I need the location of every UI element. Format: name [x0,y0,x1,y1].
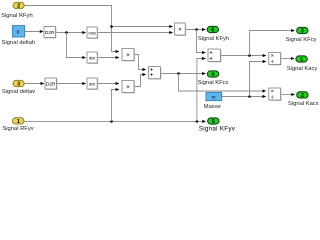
inport deltav (yellow oval 3) [13,80,24,87]
product block mid [122,49,135,62]
svg-text:Signal deltah: Signal deltah [2,40,36,46]
product block low [122,81,135,94]
outport KFyh (green oval 6) [207,26,218,33]
outport KFcy (green oval 3) [297,27,308,34]
wire sum1 out to KFcx port [160,73,205,75]
wire branch up to low product input2 [112,90,119,122]
svg-text:sin: sin [89,81,95,87]
svg-text:D2R: D2R [45,30,55,36]
wire RFyv bus [24,120,205,122]
svg-text:Signal Kacx: Signal Kacx [288,101,319,107]
junction RFyv to sum2 [196,120,199,123]
inport RFyv (yellow oval 1) [12,118,24,125]
wire divide1 out to Kacy port [281,58,295,60]
wire divide2 out to Kacx port [281,94,295,96]
trig block cos [87,27,98,39]
source block Masse (blue) [206,92,222,100]
inport RFyh (yellow oval 2) [13,2,24,9]
svg-text:Signal KFyv: Signal KFyv [199,125,236,132]
wire sin out to mid product [97,57,119,59]
svg-text:Signal KFyh: Signal KFyh [198,36,229,42]
wire low product out to sum1 input2 [134,75,146,87]
gain D2R upper [44,27,57,39]
junction on Masse wire [248,95,251,98]
svg-text:sin: sin [89,55,95,61]
svg-text:2: 2 [17,3,20,9]
svg-text:5: 5 [212,119,215,125]
wire branch up to sum2 input2 [197,59,206,122]
trig block sin lower [87,78,98,90]
wire sin lower out to low product input1 [97,83,119,85]
svg-text:2: 2 [301,93,304,99]
wire KFyh branch down to sum2 input1 [197,30,206,53]
divide block 1 [269,53,282,66]
wire sum2 out to divide1 numerator [221,55,266,57]
svg-text:Signal RFyv: Signal RFyv [2,126,33,132]
outport Kacx (green oval 2) [297,92,308,99]
svg-text:1: 1 [17,119,20,125]
wire KFcy branch up to KFcy port [250,31,295,56]
wire branch down to sin [67,33,86,58]
svg-text:6: 6 [211,28,214,34]
svg-text:D2R: D2R [46,81,56,87]
wire deltav to D2R lower [24,83,44,85]
svg-text:cos: cos [88,31,96,36]
junction RFyv to low product [110,120,113,123]
svg-text:Signal KFcy: Signal KFcy [286,37,317,43]
junction RFyh branch [110,25,113,28]
wire deltah to D2R [25,31,43,33]
wire cos out to top product [97,32,172,34]
svg-text:Signal RFyh: Signal RFyh [1,13,33,19]
svg-text:3: 3 [17,81,20,87]
outport Kacy (green oval 1) [296,56,307,63]
sum block 2 [208,49,221,62]
svg-text:Signal deltav: Signal deltav [2,89,35,95]
source block deltah (blue) [13,26,25,37]
wire mid product out to sum1 input1 [134,55,146,70]
wire KFcx branch down to divide2 numerator [179,74,266,92]
svg-text:Masse: Masse [204,104,221,110]
wire D2R out to cos [56,32,86,34]
junction on D2R output [65,31,68,34]
product block top [175,23,187,36]
gain D2R lower [45,78,58,90]
wire RFyh from port along top and down [24,6,172,52]
wire top product out to KFyh port [185,29,205,31]
svg-text:8: 8 [17,30,20,36]
outport KFcx (green oval 4) [207,71,218,78]
junction on KFcx wire [177,72,180,75]
svg-text:Signal KFcx: Signal KFcx [198,80,229,86]
svg-text:Signal Kacy: Signal Kacy [287,66,318,72]
wire Masse out to divide2 denominator [222,96,266,98]
svg-text:3: 3 [301,29,304,35]
wire D2R lower out to sin lower [57,83,86,85]
divide block 2 [269,88,282,101]
svg-text:4: 4 [212,72,215,78]
trig block sin upper [87,52,98,64]
junction on KFyh wire [195,28,198,31]
junction on KFcy wire [248,54,251,57]
sum block 1 [149,67,162,80]
svg-text:1: 1 [300,57,303,63]
svg-text:m: m [212,95,216,100]
outport KFyv (green oval 5) [208,118,219,125]
wire Masse branch up to divide1 denominator [250,62,267,97]
